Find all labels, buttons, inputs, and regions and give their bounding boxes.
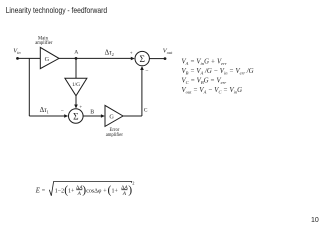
- svg-text:G: G: [109, 113, 114, 120]
- svg-text:Σ: Σ: [73, 112, 78, 122]
- arrowhead into summer S1 left: [131, 57, 135, 61]
- node Vout: [163, 47, 173, 60]
- svg-text:A: A: [77, 191, 82, 197]
- svg-text:amplifier: amplifier: [35, 41, 53, 46]
- svg-text:=: =: [42, 188, 46, 194]
- svg-text:VB = VA /G − Vin = Verr /G: VB = VA /G − Vin = Verr /G: [182, 68, 254, 76]
- arrowhead into summer S2 top: [74, 105, 78, 109]
- svg-text:Vout: Vout: [163, 47, 173, 55]
- fraction dA/A second: [121, 185, 128, 197]
- svg-text:E: E: [35, 188, 41, 195]
- svg-text:Σ: Σ: [139, 55, 144, 65]
- summer S2 (error subtractor): [69, 109, 84, 124]
- svg-text:1+: 1+: [68, 188, 75, 194]
- error amplifier G triangle: [105, 105, 123, 126]
- svg-text:2: 2: [132, 180, 134, 185]
- wire Vin to main amplifier input: [18, 57, 41, 59]
- svg-text:1+: 1+: [112, 188, 119, 194]
- svg-text:10: 10: [311, 217, 319, 224]
- wire main amplifier to summer S1: [59, 57, 131, 59]
- summer S1 (output subtractor): [135, 51, 149, 65]
- svg-text:Vout = VA − VC = VinG: Vout = VA − VC = VinG: [182, 87, 243, 95]
- radical sign: [49, 182, 131, 196]
- svg-text:1−2: 1−2: [55, 188, 64, 194]
- svg-text:G: G: [45, 56, 50, 63]
- wire input branch down to lower path: [28, 58, 30, 116]
- svg-text:+: +: [130, 52, 133, 57]
- attenuator 1/G triangle: [65, 78, 87, 96]
- wire attenuator to summer S2 top: [75, 96, 77, 105]
- svg-text:Vin: Vin: [13, 47, 21, 55]
- svg-text:−: −: [61, 109, 64, 115]
- svg-text:): ): [128, 184, 132, 197]
- svg-text:VC = VBG = Verr: VC = VBG = Verr: [182, 78, 227, 86]
- arrowhead into summer S2 left: [64, 114, 68, 118]
- main amplifier label: [35, 36, 53, 46]
- svg-text:A: A: [122, 191, 127, 197]
- svg-text:1/G: 1/G: [72, 82, 80, 88]
- svg-text:−: −: [145, 68, 148, 74]
- wire summer S1 to Vout: [149, 58, 165, 60]
- arrowhead into summer S1 bottom: [140, 66, 144, 70]
- error amplifier label: [106, 128, 124, 138]
- fraction dA/A first: [76, 185, 83, 197]
- main amplifier G triangle: [40, 47, 59, 68]
- wire node A down to attenuator 1/G: [75, 58, 77, 78]
- svg-text:Δτ2: Δτ2: [105, 49, 114, 57]
- svg-text:amplifier: amplifier: [106, 133, 124, 138]
- wire error amplifier to node C corner: [123, 115, 142, 117]
- wire summer S2 to error amplifier: [83, 115, 101, 117]
- node Vin: [13, 47, 21, 59]
- svg-text:A: A: [74, 50, 78, 56]
- svg-text:B: B: [90, 110, 94, 116]
- svg-text:VA = VinG + Verr: VA = VinG + Verr: [182, 58, 227, 66]
- node A: [74, 50, 78, 60]
- svg-text:cosΔφ: cosΔφ: [86, 188, 102, 194]
- error magnitude equation E: [35, 180, 135, 197]
- svg-text:C: C: [144, 108, 148, 114]
- wire node C up to summer S1 bottom: [141, 70, 143, 117]
- svg-text:Linearity technology - feedfor: Linearity technology - feedforward: [6, 6, 108, 15]
- wire lower path to summer S2: [29, 115, 64, 117]
- arrowhead into error amplifier input: [101, 114, 105, 118]
- svg-text:Δτ1: Δτ1: [40, 106, 49, 114]
